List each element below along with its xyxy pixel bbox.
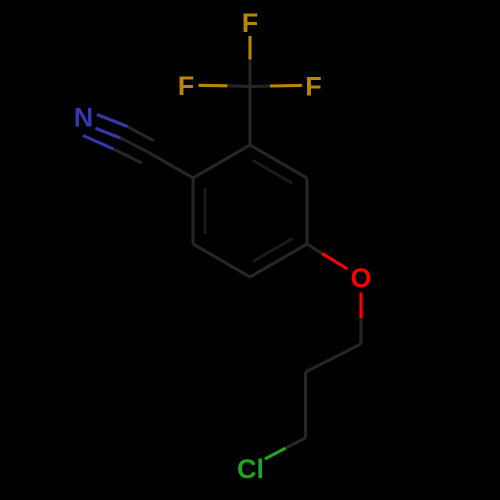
svg-text:F: F [242,8,259,38]
bond C-Ftop [248,60,251,87]
svg-text:Cl: Cl [237,454,264,484]
benzene ring edges [193,145,307,277]
bond ring-O [307,244,322,254]
bond ring-CF3 [248,87,251,146]
bond CH2-CH2 [306,344,362,372]
svg-text:O: O [350,263,371,293]
bond C#N triple: blue halves [83,115,128,150]
bond C-Fleft [227,84,250,88]
benzene inner double-bond lines [205,160,293,261]
bond C-Cl [286,438,306,448]
bond nitrileC-ring [148,152,193,178]
bond CH2-CH2Cl [304,372,307,438]
svg-text:F: F [178,71,195,101]
bond C#N triple: carbon-side gray halves [114,127,155,164]
bond C-Fright [250,84,270,88]
bond O-CH2 [359,293,362,319]
svg-text:F: F [305,72,322,102]
svg-text:N: N [74,103,94,133]
